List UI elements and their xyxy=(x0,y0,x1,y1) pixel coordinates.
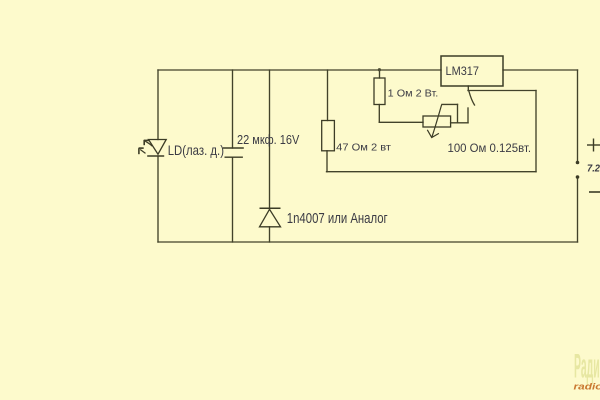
wire diode branch upper xyxy=(269,70,271,208)
svg-text:LM317: LM317 xyxy=(446,66,480,78)
wire stub up from pot right lead xyxy=(467,108,469,123)
wire pot right lead xyxy=(451,122,468,124)
svg-text:100 Ом 0.125вт.: 100 Ом 0.125вт. xyxy=(448,142,532,155)
laser diode emission arrow 2 xyxy=(139,148,146,154)
svg-text:Радио: Радио xyxy=(574,348,600,386)
svg-text:7.2: 7.2 xyxy=(587,163,600,174)
wire pot wiper vertical xyxy=(457,104,459,122)
wire diode branch lower xyxy=(269,227,271,242)
wire top bus left xyxy=(158,69,441,71)
svg-text:1 Ом 2 Вт.: 1 Ом 2 Вт. xyxy=(388,88,439,100)
wire right drop to battery plus xyxy=(577,70,579,161)
LM317 adj pin stub xyxy=(467,86,469,91)
laser diode LD cathode bar xyxy=(147,155,164,157)
LM317 adj pin diagonal xyxy=(469,92,475,106)
wire left drop lower (LD cathode to bottom) xyxy=(157,156,159,242)
wire pot wiper horizontal xyxy=(442,103,458,105)
wire pot left lead xyxy=(379,121,423,123)
wire bottom of divider loop xyxy=(327,171,537,173)
wire capacitor branch lower xyxy=(232,157,234,242)
diode VD1 triangle xyxy=(260,209,281,227)
potentiometer arrow head xyxy=(427,130,439,138)
node junction dot at 1 Ohm top xyxy=(378,68,381,71)
wire left drop upper (to LD anode) xyxy=(157,70,159,140)
regulator U1 LM317 box xyxy=(441,56,503,86)
potentiometer arrow shaft xyxy=(432,105,442,138)
wire top bus right xyxy=(503,69,578,71)
wire right riser from battery minus xyxy=(577,178,579,242)
wire right side of divider loop xyxy=(535,91,537,172)
wire 1ohm branch lower xyxy=(378,105,380,123)
capacitor C1 plates xyxy=(223,148,244,157)
svg-text:1n4007 или Аналог: 1n4007 или Аналог xyxy=(287,210,388,227)
potentiometer R3 body xyxy=(423,116,451,127)
svg-text:LD(лаз. д.): LD(лаз. д.) xyxy=(168,142,224,158)
laser diode emission arrow 1 xyxy=(144,140,152,146)
wire 1ohm branch upper xyxy=(379,70,381,78)
laser diode LD triangle xyxy=(149,140,167,155)
battery minus sign xyxy=(589,191,600,193)
wire capacitor branch upper xyxy=(232,70,234,148)
node battery minus terminal dot xyxy=(576,175,580,179)
battery plus sign xyxy=(587,139,600,152)
diode VD1 cathode bar xyxy=(260,207,281,209)
node battery plus terminal dot xyxy=(576,161,580,165)
resistor R1 47 Ohm body xyxy=(322,121,335,151)
svg-text:47 Ом 2 вт: 47 Ом 2 вт xyxy=(336,142,391,154)
svg-text:radio: radio xyxy=(574,381,600,392)
wire bottom bus xyxy=(158,241,578,243)
resistor R2 1 Ohm body xyxy=(374,78,385,105)
wire 47ohm branch upper xyxy=(327,70,329,121)
wire 47ohm branch lower xyxy=(326,151,328,172)
svg-text:22 мкф. 16V: 22 мкф. 16V xyxy=(237,132,300,147)
wire from LM317 adj area to divider loop xyxy=(468,90,536,92)
